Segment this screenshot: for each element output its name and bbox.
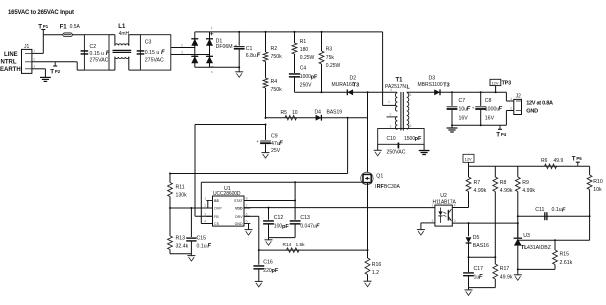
svg-text:C2: C2 xyxy=(90,44,97,50)
svg-text:D5: D5 xyxy=(473,235,480,241)
svg-text:C15: C15 xyxy=(197,235,207,241)
svg-text:DRV: DRV xyxy=(235,215,243,219)
svg-text:P5: P5 xyxy=(576,156,582,161)
svg-text:4.99k: 4.99k xyxy=(522,188,535,194)
svg-text:T3: T3 xyxy=(443,82,449,88)
svg-text:10: 10 xyxy=(292,110,298,116)
svg-text:STAT: STAT xyxy=(234,199,243,203)
svg-text:P1: P1 xyxy=(43,24,49,29)
svg-text:C7: C7 xyxy=(459,98,466,104)
svg-text:C13: C13 xyxy=(300,215,310,221)
svg-text:3: 3 xyxy=(33,65,35,69)
svg-text:R17: R17 xyxy=(500,266,510,272)
svg-text:1: 1 xyxy=(432,204,434,208)
svg-text:5: 5 xyxy=(410,124,412,128)
svg-text:R11: R11 xyxy=(176,184,185,190)
svg-text:R2: R2 xyxy=(271,46,278,52)
svg-text:CS: CS xyxy=(214,222,220,226)
svg-text:Q1: Q1 xyxy=(376,174,383,180)
svg-text:2: 2 xyxy=(33,58,35,62)
svg-text:F: F xyxy=(161,50,165,56)
svg-text:R4: R4 xyxy=(271,79,278,85)
svg-text:16V: 16V xyxy=(485,116,495,122)
svg-text:4.99k: 4.99k xyxy=(500,188,513,194)
svg-text:D3: D3 xyxy=(429,76,436,82)
svg-text:10k: 10k xyxy=(593,187,602,193)
svg-text:+: + xyxy=(256,139,259,144)
svg-text:165VAC to 265VAC Input: 165VAC to 265VAC Input xyxy=(8,10,74,16)
svg-text:D4: D4 xyxy=(315,110,322,116)
svg-text:75k: 75k xyxy=(326,55,335,61)
svg-text:6: 6 xyxy=(410,93,412,97)
svg-text:3: 3 xyxy=(181,50,183,54)
svg-text:FB: FB xyxy=(214,215,219,219)
svg-text:C17: C17 xyxy=(474,266,484,272)
svg-text:R10: R10 xyxy=(593,179,603,185)
svg-text:C8: C8 xyxy=(485,98,492,104)
svg-text:0.25W: 0.25W xyxy=(326,63,341,69)
svg-text:1: 1 xyxy=(211,26,213,30)
svg-text:T: T xyxy=(496,132,500,139)
svg-text:P4: P4 xyxy=(501,132,507,137)
svg-text:4mH: 4mH xyxy=(119,31,130,37)
svg-text:EARTH: EARTH xyxy=(0,67,21,73)
svg-text:C9: C9 xyxy=(271,134,278,140)
svg-text:pF: pF xyxy=(311,75,318,81)
svg-text:D2: D2 xyxy=(350,76,357,82)
svg-text:C16: C16 xyxy=(263,260,273,266)
svg-text:2: 2 xyxy=(390,113,392,117)
svg-text:12V: 12V xyxy=(465,157,472,162)
svg-text:VDD: VDD xyxy=(235,207,243,211)
svg-text:F: F xyxy=(562,208,566,214)
svg-text:1: 1 xyxy=(33,49,35,53)
svg-text:+: + xyxy=(235,43,238,48)
svg-text:0.1u: 0.1u xyxy=(552,207,562,213)
svg-text:MBRS1100: MBRS1100 xyxy=(418,82,443,88)
svg-text:R8: R8 xyxy=(500,180,507,186)
svg-text:1.5k: 1.5k xyxy=(296,242,306,248)
svg-text:R1: R1 xyxy=(300,39,307,45)
svg-text:SS: SS xyxy=(214,199,219,203)
svg-text:2: 2 xyxy=(432,219,434,223)
svg-text:T: T xyxy=(572,155,576,162)
svg-text:F: F xyxy=(479,275,483,281)
svg-text:R7: R7 xyxy=(474,180,481,186)
svg-text:F: F xyxy=(257,53,261,59)
svg-text:L1: L1 xyxy=(118,24,126,30)
svg-text:UCC28600D: UCC28600D xyxy=(213,191,241,197)
svg-text:3: 3 xyxy=(454,219,456,223)
svg-text:pF: pF xyxy=(282,224,289,230)
svg-text:250V: 250V xyxy=(300,83,312,89)
svg-text:R3: R3 xyxy=(326,47,333,53)
svg-text:T: T xyxy=(50,68,54,75)
svg-text:16V: 16V xyxy=(459,116,469,122)
svg-text:MURA160: MURA160 xyxy=(332,82,355,88)
svg-text:1.2: 1.2 xyxy=(372,270,379,276)
svg-text:NTRL: NTRL xyxy=(1,60,17,66)
svg-text:250VAC: 250VAC xyxy=(387,150,406,156)
svg-text:C10: C10 xyxy=(387,136,396,142)
svg-text:pF: pF xyxy=(415,136,422,142)
svg-text:U2: U2 xyxy=(440,193,447,199)
svg-text:2: 2 xyxy=(181,43,183,47)
svg-text:R16: R16 xyxy=(372,262,382,268)
svg-text:275VAC: 275VAC xyxy=(90,58,109,64)
svg-text:12V: 12V xyxy=(491,80,498,85)
svg-text:2.61k: 2.61k xyxy=(560,260,573,266)
svg-text:R5: R5 xyxy=(281,110,288,116)
svg-text:F: F xyxy=(106,51,110,57)
svg-text:1000u: 1000u xyxy=(485,107,500,113)
svg-text:49.9k: 49.9k xyxy=(500,275,513,281)
svg-text:2: 2 xyxy=(510,107,512,111)
svg-text:BAS16: BAS16 xyxy=(473,243,489,249)
svg-text:1: 1 xyxy=(388,100,390,104)
svg-text:T: T xyxy=(38,24,42,31)
svg-text:0.25W: 0.25W xyxy=(300,55,315,61)
svg-text:F: F xyxy=(316,223,320,229)
svg-text:0.5A: 0.5A xyxy=(70,24,81,30)
svg-text:P2: P2 xyxy=(55,69,61,74)
svg-text:431AIDBZ: 431AIDBZ xyxy=(527,245,551,251)
svg-text:F1: F1 xyxy=(60,24,68,30)
svg-text:4: 4 xyxy=(211,70,213,74)
svg-text:R14: R14 xyxy=(283,242,292,248)
svg-text:BC30A: BC30A xyxy=(384,184,401,190)
svg-text:F: F xyxy=(467,107,471,113)
svg-text:0.047u: 0.047u xyxy=(300,223,316,229)
svg-text:32.4k: 32.4k xyxy=(176,244,189,250)
svg-text:3: 3 xyxy=(390,125,392,129)
svg-text:J1: J1 xyxy=(24,44,30,50)
svg-text:4: 4 xyxy=(454,204,456,208)
svg-text:750k: 750k xyxy=(271,54,283,60)
svg-text:5: 5 xyxy=(246,220,248,224)
svg-text:0.15 u: 0.15 u xyxy=(90,51,105,57)
svg-text:R6: R6 xyxy=(541,158,548,164)
svg-text:OVP: OVP xyxy=(214,207,222,211)
svg-text:C12: C12 xyxy=(274,215,284,221)
svg-text:C4: C4 xyxy=(300,66,307,72)
svg-text:4: 4 xyxy=(390,88,392,92)
svg-text:T3: T3 xyxy=(353,82,359,88)
svg-text:6.8u: 6.8u xyxy=(246,53,256,59)
svg-text:F: F xyxy=(498,107,502,113)
svg-text:TP3: TP3 xyxy=(502,80,511,86)
svg-text:F: F xyxy=(207,244,211,250)
svg-text:130k: 130k xyxy=(176,192,188,198)
svg-text:750k: 750k xyxy=(271,87,283,93)
svg-text:+: + xyxy=(472,106,475,111)
svg-text:C3: C3 xyxy=(145,39,152,45)
svg-text:4.99k: 4.99k xyxy=(474,188,487,194)
svg-text:BAS19: BAS19 xyxy=(327,110,343,116)
svg-text:LINE: LINE xyxy=(4,52,18,58)
svg-text:49.9: 49.9 xyxy=(554,158,564,164)
svg-text:DF06M: DF06M xyxy=(216,44,233,50)
svg-text:GND: GND xyxy=(235,222,243,226)
svg-text:U3: U3 xyxy=(523,233,530,239)
svg-text:R15: R15 xyxy=(560,252,570,258)
svg-text:275VAC: 275VAC xyxy=(145,58,164,64)
svg-text:1: 1 xyxy=(204,197,206,201)
svg-text:PA2517N: PA2517N xyxy=(385,84,406,90)
svg-text:25V: 25V xyxy=(271,148,281,154)
svg-text:J2: J2 xyxy=(516,93,522,99)
svg-text:0.15 u: 0.15 u xyxy=(145,50,160,56)
svg-text:pF: pF xyxy=(272,268,279,274)
svg-text:1000: 1000 xyxy=(300,74,311,80)
svg-text:T1: T1 xyxy=(396,78,404,84)
svg-text:0.1u: 0.1u xyxy=(197,244,207,250)
svg-text:1: 1 xyxy=(510,97,512,101)
svg-text:C1: C1 xyxy=(246,46,253,52)
svg-text:R13: R13 xyxy=(176,235,186,241)
svg-text:180: 180 xyxy=(300,47,309,53)
svg-text:C11: C11 xyxy=(535,207,544,213)
svg-text:12V at 0.8A: 12V at 0.8A xyxy=(526,101,553,107)
svg-text:F: F xyxy=(279,141,283,147)
svg-text:R9: R9 xyxy=(522,180,529,186)
svg-text:GND: GND xyxy=(526,108,538,114)
